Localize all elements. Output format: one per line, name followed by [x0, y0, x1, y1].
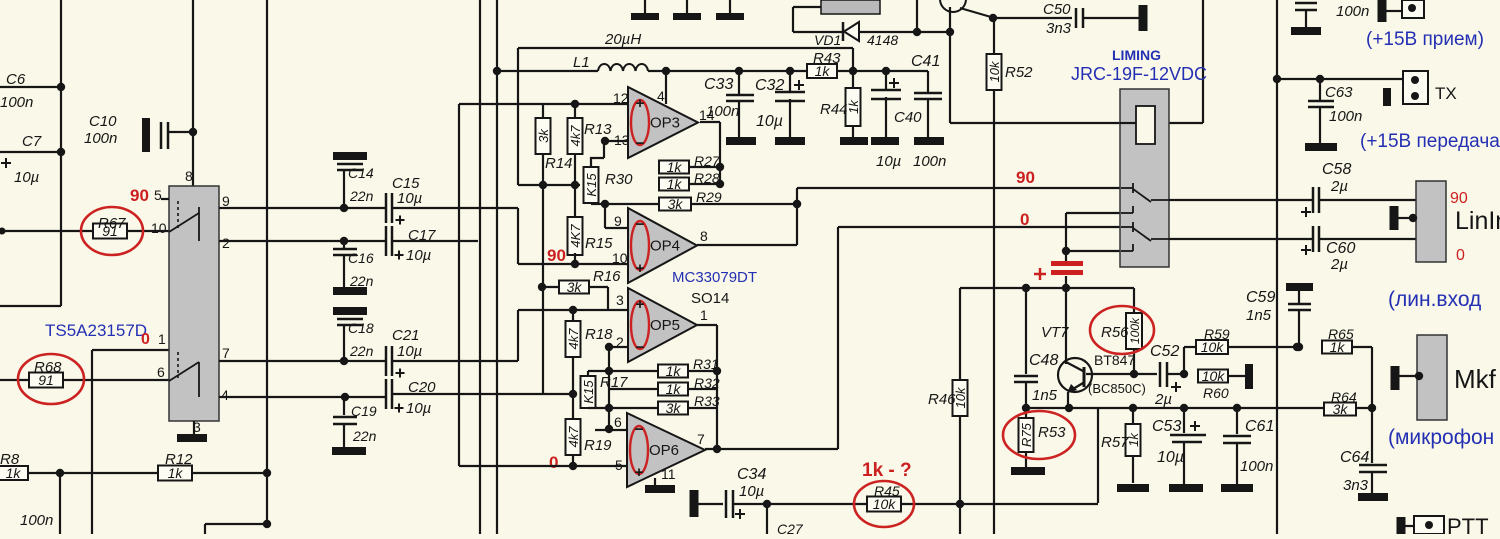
svg-text:R14: R14 [545, 155, 573, 172]
svg-text:0: 0 [1020, 210, 1029, 229]
svg-text:C10: C10 [89, 113, 117, 130]
svg-text:−: − [636, 216, 645, 233]
svg-text:10µ: 10µ [756, 113, 783, 130]
svg-text:OP6: OP6 [649, 442, 679, 459]
svg-text:10µ: 10µ [397, 343, 422, 360]
svg-text:LIMING: LIMING [1112, 47, 1161, 63]
svg-text:100n: 100n [913, 153, 946, 170]
svg-text:C61: C61 [1245, 418, 1274, 435]
svg-text:C6: C6 [6, 71, 26, 88]
svg-text:6: 6 [157, 364, 165, 380]
svg-text:20µH: 20µH [604, 31, 641, 48]
svg-text:−: − [635, 421, 644, 438]
svg-text:R67: R67 [98, 215, 126, 232]
svg-text:(+15В прием): (+15В прием) [1366, 29, 1484, 50]
svg-text:7: 7 [222, 345, 230, 361]
svg-text:10µ: 10µ [876, 153, 901, 170]
svg-text:4k7: 4k7 [568, 125, 583, 147]
svg-text:10µ: 10µ [406, 400, 431, 417]
svg-text:100n: 100n [1336, 3, 1369, 20]
svg-text:0: 0 [141, 331, 150, 348]
svg-text:8: 8 [185, 168, 193, 184]
svg-text:−: − [636, 135, 645, 152]
svg-text:1k: 1k [846, 99, 861, 114]
svg-text:10: 10 [151, 220, 167, 236]
svg-text:VT7: VT7 [1041, 324, 1069, 341]
svg-text:−: − [636, 339, 645, 356]
svg-text:C59: C59 [1246, 289, 1275, 306]
svg-text:R30: R30 [605, 171, 633, 188]
svg-text:2: 2 [222, 235, 230, 251]
svg-text:C63: C63 [1325, 84, 1353, 101]
svg-text:(лин.вход: (лин.вход [1388, 288, 1481, 311]
svg-text:5: 5 [154, 187, 162, 203]
svg-text:R65: R65 [1328, 326, 1354, 342]
svg-text:R60: R60 [1203, 385, 1229, 401]
svg-text:C16: C16 [348, 250, 374, 266]
svg-text:MC33079DT: MC33079DT [672, 269, 757, 286]
svg-text:TX: TX [1435, 84, 1457, 103]
svg-text:11: 11 [661, 466, 676, 482]
svg-text:100k: 100k [1128, 317, 1142, 344]
svg-text:3: 3 [616, 292, 624, 308]
svg-text:PTT: PTT [1447, 514, 1489, 534]
svg-text:R68: R68 [34, 359, 62, 376]
svg-text:8: 8 [700, 228, 708, 244]
svg-text:+: + [636, 260, 645, 277]
svg-text:10µ: 10µ [397, 190, 422, 207]
svg-text:R12: R12 [165, 451, 193, 468]
svg-text:K15: K15 [581, 380, 596, 404]
svg-text:R29: R29 [696, 189, 722, 205]
svg-text:C41: C41 [911, 53, 940, 70]
svg-text:K15: K15 [584, 173, 599, 197]
svg-text:1n5: 1n5 [1032, 387, 1058, 404]
svg-text:OP3: OP3 [650, 115, 680, 132]
svg-text:1k: 1k [667, 159, 683, 175]
svg-text:C19: C19 [351, 403, 377, 419]
svg-text:C14: C14 [348, 165, 374, 181]
svg-text:L1: L1 [573, 54, 590, 71]
svg-text:5: 5 [615, 457, 623, 473]
svg-text:R46: R46 [928, 391, 956, 408]
svg-text:R15: R15 [585, 235, 613, 252]
svg-text:1k: 1k [667, 176, 683, 192]
svg-text:R59: R59 [1204, 326, 1230, 342]
svg-text:90: 90 [130, 186, 149, 205]
svg-text:R75: R75 [1019, 422, 1034, 447]
svg-text:10k: 10k [1202, 368, 1226, 384]
svg-text:4K7: 4K7 [568, 224, 583, 248]
svg-text:4148: 4148 [867, 32, 898, 48]
svg-text:90: 90 [1016, 168, 1035, 187]
svg-text:22n: 22n [349, 273, 374, 289]
svg-text:JRC-19F-12VDC: JRC-19F-12VDC [1071, 64, 1207, 84]
svg-text:3k: 3k [666, 400, 682, 416]
svg-text:10k: 10k [987, 60, 1002, 82]
svg-text:C50: C50 [1043, 1, 1071, 18]
svg-text:100n: 100n [0, 94, 33, 111]
svg-text:0: 0 [549, 453, 558, 472]
svg-text:2µ: 2µ [1330, 178, 1348, 195]
svg-text:10µ: 10µ [14, 169, 39, 186]
svg-text:10µ: 10µ [406, 247, 431, 264]
svg-text:SO14: SO14 [691, 290, 729, 307]
svg-text:100n: 100n [20, 512, 53, 529]
svg-text:C64: C64 [1340, 449, 1369, 466]
svg-text:10: 10 [612, 250, 628, 266]
svg-text:C32: C32 [755, 77, 784, 94]
svg-text:(BC850C): (BC850C) [1088, 381, 1146, 396]
svg-text:22n: 22n [349, 343, 374, 359]
svg-text:100n: 100n [84, 130, 117, 147]
svg-text:(микрофон: (микрофон [1388, 426, 1494, 449]
svg-text:90: 90 [1450, 190, 1468, 207]
svg-text:4k7: 4k7 [566, 426, 581, 448]
svg-text:4k7: 4k7 [566, 328, 581, 350]
svg-text:C27: C27 [777, 521, 804, 534]
svg-text:3k: 3k [668, 196, 684, 212]
svg-text:10µ: 10µ [739, 483, 764, 500]
svg-text:2µ: 2µ [1330, 256, 1348, 273]
svg-text:R19: R19 [584, 437, 612, 454]
svg-text:9: 9 [222, 193, 230, 209]
svg-text:C34: C34 [737, 466, 766, 483]
svg-text:C21: C21 [392, 327, 420, 344]
svg-text:100n: 100n [1329, 108, 1362, 125]
svg-text:+: + [635, 464, 644, 481]
svg-text:3n3: 3n3 [1343, 477, 1369, 494]
svg-text:R64: R64 [1331, 389, 1357, 405]
svg-text:Mkf: Mkf [1454, 364, 1497, 394]
svg-text:0: 0 [1456, 247, 1465, 264]
svg-text:1: 1 [700, 307, 708, 323]
svg-text:9: 9 [614, 213, 622, 229]
svg-text:14: 14 [699, 107, 715, 123]
svg-text:R57: R57 [1101, 434, 1129, 451]
svg-text:1k - ?: 1k - ? [862, 460, 912, 481]
svg-text:VD1: VD1 [814, 32, 841, 48]
svg-text:7: 7 [697, 431, 705, 447]
svg-text:4: 4 [221, 387, 229, 403]
svg-text:(+15В передача: (+15В передача [1360, 131, 1500, 152]
svg-text:C33: C33 [704, 76, 733, 93]
svg-text:R52: R52 [1005, 64, 1033, 81]
svg-text:4: 4 [657, 88, 665, 104]
svg-text:+: + [636, 95, 645, 112]
svg-text:R43: R43 [813, 50, 841, 67]
svg-text:C7: C7 [22, 133, 42, 150]
svg-text:C53: C53 [1152, 418, 1181, 435]
svg-text:+: + [636, 296, 645, 313]
svg-text:OP4: OP4 [650, 238, 680, 255]
svg-text:C52: C52 [1150, 343, 1179, 360]
svg-text:100n: 100n [1240, 458, 1273, 475]
svg-text:2µ: 2µ [1154, 391, 1172, 408]
svg-text:LinIn: LinIn [1455, 207, 1500, 235]
svg-text:R13: R13 [584, 121, 612, 138]
svg-text:R45: R45 [874, 483, 900, 499]
svg-text:3k: 3k [536, 128, 551, 143]
svg-text:90: 90 [547, 246, 566, 265]
svg-text:R44: R44 [820, 101, 848, 118]
svg-text:22n: 22n [349, 188, 374, 204]
svg-text:1k: 1k [666, 363, 682, 379]
svg-text:C18: C18 [348, 320, 374, 336]
svg-text:12: 12 [613, 90, 629, 106]
svg-text:C48: C48 [1029, 352, 1058, 369]
svg-text:3n3: 3n3 [1046, 20, 1072, 37]
svg-text:C58: C58 [1322, 161, 1351, 178]
svg-text:C40: C40 [894, 109, 922, 126]
svg-text:TS5A23157D: TS5A23157D [45, 321, 147, 340]
svg-text:R16: R16 [593, 268, 621, 285]
svg-text:R18: R18 [585, 326, 613, 343]
svg-text:R53: R53 [1038, 424, 1066, 441]
svg-text:1n5: 1n5 [1246, 307, 1272, 324]
svg-text:6: 6 [614, 414, 622, 430]
svg-text:10µ: 10µ [1157, 449, 1184, 466]
svg-text:1: 1 [158, 331, 166, 347]
svg-text:1k: 1k [666, 381, 682, 397]
svg-text:3k: 3k [567, 279, 583, 295]
svg-text:C60: C60 [1326, 240, 1355, 257]
svg-text:R8: R8 [0, 451, 20, 468]
svg-text:OP5: OP5 [650, 317, 680, 334]
svg-text:R56: R56 [1101, 324, 1129, 341]
svg-text:22n: 22n [352, 428, 377, 444]
